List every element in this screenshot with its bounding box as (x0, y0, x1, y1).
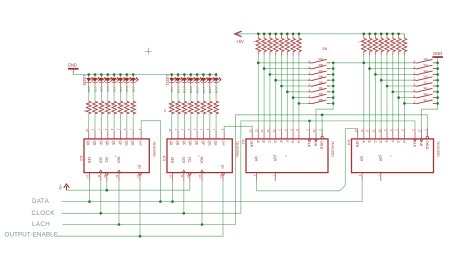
wire LED2 cathode (94, 86, 96, 102)
pin H (6) of IC1 (295, 129, 300, 144)
junction GND bus (436, 62, 439, 65)
svg-text:R8: R8 (131, 104, 133, 106)
svg-text:LACH: LACH (32, 221, 50, 228)
wire IC2 QH* to IC3 SER (141, 121, 160, 202)
junction +5V rail (274, 33, 277, 36)
svg-text:12: 12 (115, 175, 119, 178)
pin QH (7) of IC3 (212, 129, 217, 146)
junction LED bus (119, 73, 122, 76)
wire switch S2 to bus (330, 68, 333, 70)
junction LACH (118, 223, 121, 226)
switch S14 (413, 87, 436, 92)
wire switch S14 to GND bus (436, 91, 438, 93)
wire switch row 4 (bank1) (276, 79, 308, 81)
svg-text:11: 11 (180, 175, 184, 178)
pin SER (14) of IC2 (86, 157, 91, 181)
pin G (5) of IC1 (289, 129, 294, 144)
svg-text:5: 5 (289, 129, 293, 131)
wire switch S15 to GND bus (436, 97, 438, 99)
IC box IC1 74HC165N (246, 139, 328, 173)
wire switch row 3 (bank2) (375, 73, 413, 75)
wire switch row 5 (bank1) (282, 85, 309, 87)
junction LED bus (209, 73, 212, 76)
svg-text:QC: QC (99, 141, 103, 147)
svg-text:S15: S15 (424, 64, 429, 67)
wire R4 to IC2 QD (107, 114, 109, 130)
wire LED13 cathode (196, 86, 198, 102)
wire switch S1 to bus (330, 62, 333, 64)
resistor R14 (201, 101, 206, 114)
svg-text:R9: R9 (169, 104, 171, 106)
junction row6 tap RN2 (392, 91, 395, 94)
wire switch S4 to bus (330, 79, 333, 81)
svg-text:15: 15 (168, 129, 172, 132)
svg-text:19: 19 (268, 41, 270, 43)
junction bank1 bus (332, 85, 335, 88)
svg-text:9: 9 (137, 129, 141, 131)
resistor RN30 (390, 34, 395, 55)
pin QH̅ (7) of IC1 (271, 155, 276, 181)
resistor RN18 (262, 34, 267, 55)
wire RN20 to IC1 D (275, 55, 277, 129)
svg-text:7: 7 (212, 129, 216, 131)
pin SER (14) of IC3 (169, 157, 174, 181)
resistor RN19 (268, 34, 273, 55)
junction LED bus (170, 73, 173, 76)
pin SCL (10) of IC3 (186, 157, 191, 181)
pin H (6) of IC4 (401, 129, 406, 144)
wire R14 to IC3 QF (202, 114, 204, 130)
svg-text:R14: R14 (201, 104, 203, 107)
svg-text:QH*: QH* (139, 141, 143, 148)
svg-text:R3: R3 (99, 104, 101, 106)
pin E (3) of IC1 (278, 129, 283, 144)
svg-text:6: 6 (295, 129, 299, 131)
wire CLK net (CLOCK) (241, 121, 415, 213)
wire +5V pull-up rail (237, 33, 404, 35)
pin QC (2) of IC3 (181, 129, 186, 146)
wire RN29 to IC4 E (386, 55, 388, 129)
resistor R4 (105, 101, 110, 114)
wire IC3 SCK drop (183, 181, 185, 213)
wire R2 to IC2 QB (94, 114, 96, 130)
svg-text:2: 2 (181, 129, 185, 131)
wire LED11 cathode (183, 86, 185, 102)
junction +5V rail (368, 33, 371, 36)
svg-text:27: 27 (373, 41, 375, 43)
svg-text:QH: QH (273, 156, 277, 162)
svg-text:14: 14 (377, 129, 381, 132)
wire LED1 cathode (88, 86, 90, 102)
pin QH* (9) of IC2 (137, 129, 142, 147)
svg-text:SER: SER (87, 157, 91, 164)
svg-text:QE: QE (195, 141, 199, 147)
svg-text:12: 12 (198, 175, 202, 178)
svg-text:QG: QG (124, 141, 128, 147)
LED LED4 (106, 75, 113, 93)
svg-text:S8D: S8D (319, 76, 324, 79)
junction GND bus (436, 79, 439, 82)
svg-text:10: 10 (103, 175, 107, 178)
svg-text:F: F (390, 141, 394, 143)
junction CLOCK (100, 212, 103, 215)
resistor RN24 (297, 34, 302, 55)
junction LED bus (215, 73, 218, 76)
wire LED5 cathode (113, 86, 115, 102)
svg-text:13: 13 (372, 129, 376, 132)
svg-text:*: * (390, 154, 392, 159)
svg-text:R10: R10 (176, 104, 178, 107)
junction row4 tap RN1 (274, 79, 277, 82)
wire switch S3 to bus (330, 73, 333, 75)
svg-text:IC1: IC1 (241, 140, 245, 145)
junction row4 tap RN2 (380, 79, 383, 82)
svg-text:QH: QH (214, 141, 218, 147)
switch S16 (413, 99, 436, 104)
wire GND bus (437, 58, 439, 104)
svg-text:S8H: S8H (319, 99, 324, 102)
wire R16 to IC3 QH (215, 114, 217, 130)
resistor RN27 (373, 34, 378, 55)
svg-text:28: 28 (379, 41, 381, 43)
pin QG (6) of IC3 (206, 129, 211, 146)
svg-text:25: 25 (361, 41, 363, 43)
resistor RN29 (385, 34, 390, 55)
svg-text:16: 16 (163, 109, 167, 113)
svg-text:15: 15 (312, 129, 316, 132)
svg-text:13: 13 (266, 129, 270, 132)
resistor R11 (182, 101, 187, 114)
resistor R5 (112, 101, 117, 114)
resistor R8 (131, 101, 136, 114)
svg-text:QA: QA (86, 141, 90, 147)
resistor RN31 (396, 34, 401, 55)
junction bank1 bus (332, 67, 335, 70)
supply +5V (top) (235, 31, 244, 44)
switch S11 (413, 70, 436, 75)
svg-text:13: 13 (136, 175, 140, 178)
svg-text:R15: R15 (207, 104, 209, 107)
pin QH̅ (7) of IC4 (377, 155, 382, 181)
junction +5V rail (397, 33, 400, 36)
svg-text:7: 7 (129, 129, 133, 131)
svg-text:5: 5 (117, 129, 121, 131)
wire R15 to IC3 QG (209, 114, 211, 130)
junction row5 tap RN1 (280, 85, 283, 88)
LED LED2 (93, 75, 100, 93)
svg-text:4: 4 (389, 129, 393, 131)
wire RN19 to IC1 C (269, 55, 271, 129)
svg-text:S16: S16 (424, 58, 429, 61)
LED LED10 (176, 75, 183, 94)
junction +5V rail (374, 33, 377, 36)
pin C (13) of IC4 (372, 129, 377, 144)
junction +5V rail (386, 33, 389, 36)
junction DATA (88, 200, 91, 203)
svg-text:G: G (291, 141, 295, 144)
junction +5V rail (263, 33, 266, 36)
svg-text:SHLD: SHLD (320, 141, 324, 150)
wire LED3 cathode (100, 86, 102, 102)
pin QH* (9) of IC3 (220, 129, 225, 147)
junction GND bus (436, 96, 439, 99)
svg-text:2: 2 (411, 129, 415, 131)
wire R10 to IC3 QB (177, 114, 179, 130)
svg-text:13: 13 (219, 175, 223, 178)
svg-text:17: 17 (256, 41, 258, 43)
junction row7 tap RN2 (397, 96, 400, 99)
LED LED13 (195, 75, 202, 94)
svg-text:23: 23 (291, 41, 293, 43)
svg-text:74HC595N: 74HC595N (152, 141, 156, 157)
junction LED bus (100, 73, 103, 76)
svg-text:26: 26 (367, 41, 369, 43)
wire switch S7 to bus (330, 97, 333, 99)
svg-text:9: 9 (253, 175, 257, 177)
junction LED bus (196, 73, 199, 76)
svg-text:14: 14 (86, 175, 90, 178)
svg-text:R2: R2 (93, 104, 95, 106)
junction LED bus (132, 73, 135, 76)
pin INH (15) of IC4 (418, 129, 424, 147)
wire IC2 SCK drop (100, 181, 102, 213)
resistor RN25 (361, 34, 366, 55)
switch S10 (413, 64, 436, 69)
pin CLK (2) of IC1 (306, 129, 312, 148)
junction row1 tap RN2 (363, 62, 366, 65)
svg-text:QB: QB (176, 141, 180, 147)
wire SH/LD to IC1 (321, 115, 323, 136)
svg-text:S12: S12 (424, 81, 429, 84)
wire R7 to IC2 QG (126, 114, 128, 130)
LED LED16 (214, 75, 221, 94)
svg-text:R4: R4 (105, 104, 107, 106)
svg-text:D: D (379, 141, 383, 144)
supply +5V (bottom) (58, 184, 69, 191)
svg-text:4: 4 (110, 129, 114, 131)
svg-text:31: 31 (396, 41, 398, 43)
switch S12 (413, 76, 436, 81)
wire switch S12 to GND bus (436, 79, 438, 81)
wire switch row 3 (bank1) (270, 73, 308, 75)
svg-text:S8F: S8F (319, 87, 324, 90)
pin QE (4) of IC3 (193, 129, 198, 146)
svg-text:SER: SER (170, 157, 174, 164)
junction +5V rail (286, 33, 289, 36)
resistor RN26 (367, 34, 372, 55)
pin QA (15) of IC3 (168, 129, 173, 146)
wire switch row 5 (bank2) (387, 85, 413, 87)
svg-text:12: 12 (260, 129, 264, 132)
svg-text:7: 7 (377, 175, 381, 177)
wire CLOCK (62, 212, 241, 214)
junction LED bus (126, 73, 129, 76)
svg-text:QH: QH (360, 156, 364, 162)
pin SER (10) of IC4 (354, 129, 359, 148)
wire IC3 QH* to IC1 SER (224, 126, 252, 130)
svg-text:20: 20 (273, 41, 275, 43)
svg-text:74HC165N: 74HC165N (436, 141, 440, 157)
svg-text:QF: QF (201, 141, 205, 146)
wire RN25 to IC4 A (363, 55, 365, 129)
svg-text:R7: R7 (124, 104, 126, 106)
junction GND bus (436, 85, 439, 88)
junction bank1 bus (332, 73, 335, 76)
svg-text:SER: SER (355, 141, 359, 148)
svg-text:QF: QF (118, 141, 122, 146)
LED LED5 (112, 75, 119, 93)
svg-text:LED0: LED0 (82, 75, 87, 86)
svg-text:R16: R16 (214, 104, 216, 107)
svg-text:9: 9 (220, 129, 224, 131)
wire switch S10 to GND bus (436, 68, 438, 70)
wire R6 to IC2 QF (120, 114, 122, 130)
svg-text:GND: GND (433, 51, 442, 56)
pin D (14) of IC1 (272, 129, 277, 144)
svg-text:C: C (373, 141, 377, 144)
wire LED12 cathode (190, 86, 192, 102)
wire RN24 to IC1 H (298, 55, 300, 129)
svg-text:10: 10 (186, 175, 190, 178)
pin QE (4) of IC2 (110, 129, 115, 146)
junction GND bus (436, 91, 439, 94)
wire switch row 7 (bank1) (293, 97, 308, 99)
svg-text:QC: QC (182, 141, 186, 147)
junction CLK IC1 (308, 120, 311, 123)
svg-text:10: 10 (354, 129, 358, 132)
svg-text:32: 32 (402, 41, 404, 43)
svg-text:4: 4 (193, 129, 197, 131)
svg-text:E: E (279, 141, 283, 144)
wire IC3 RCK drop (201, 181, 203, 225)
pin QH (9) of IC4 (358, 156, 363, 181)
junction LED bus (183, 73, 186, 76)
pin SHLD (1) of IC1 (318, 129, 323, 150)
junction +5V rail (280, 33, 283, 36)
wire R1 to IC2 QA (88, 114, 90, 130)
svg-text:S8A: S8A (319, 58, 324, 61)
junction row8 tap RN1 (298, 102, 301, 105)
svg-text:1: 1 (423, 129, 427, 131)
svg-text:15: 15 (418, 129, 422, 132)
pin C (13) of IC1 (266, 129, 271, 144)
wire switch row 6 (bank2) (393, 91, 413, 93)
svg-text:SCL: SCL (187, 157, 191, 164)
pin SHLD (1) of IC4 (423, 129, 428, 150)
svg-text:3: 3 (278, 129, 282, 131)
op-amp-style box IC2 74HC595N (84, 139, 149, 173)
wire CLK to IC1 (309, 121, 311, 129)
pin G (5) of IC4 (395, 129, 400, 144)
resistor RN17 (256, 34, 261, 55)
LED LED9 (169, 75, 176, 93)
svg-text:R11: R11 (182, 104, 184, 107)
wire LED anode bus (73, 74, 216, 76)
svg-text:3: 3 (104, 129, 108, 131)
wire RN22 to IC1 F (286, 55, 288, 129)
wire IC1 QH to IC4 SER (257, 129, 358, 191)
pin QC (2) of IC2 (98, 129, 103, 146)
wire RN28 to IC4 D (380, 55, 382, 129)
junction +5V rail (292, 33, 295, 36)
wire switch row 8 (bank1) (299, 102, 308, 104)
wire switch row 1 (bank1) (258, 62, 308, 64)
wire bank1 bus to IC1 INH (316, 103, 333, 128)
junction LED bus (94, 73, 97, 76)
svg-text:S13: S13 (424, 76, 429, 79)
svg-text:QH*: QH* (222, 141, 226, 148)
wire R3 to IC2 QC (100, 114, 102, 130)
svg-text:RCK: RCK (117, 157, 121, 165)
svg-text:QH: QH (378, 156, 382, 162)
junction LACH (201, 223, 204, 226)
pin G (13) of IC2 (136, 165, 141, 181)
LED LED6 (118, 75, 125, 93)
switch S7 (308, 93, 330, 98)
svg-text:CLK: CLK (413, 141, 417, 148)
pin QB (1) of IC3 (174, 129, 179, 146)
svg-text:6: 6 (123, 129, 127, 131)
junction SH/LD IC1 (321, 114, 324, 117)
wire LED6 cathode (120, 86, 122, 102)
wire LED9 cathode (171, 86, 173, 102)
junction row8 tap RN2 (403, 102, 406, 105)
junction LED bus (177, 73, 180, 76)
LED LED15 (208, 75, 215, 94)
svg-text:14: 14 (272, 129, 276, 132)
svg-text:74HC165N: 74HC165N (331, 141, 335, 157)
resistor R12 (188, 101, 193, 114)
wire RN23 to IC1 G (292, 55, 294, 129)
svg-text:OUTPUT-ENABLE: OUTPUT-ENABLE (5, 232, 59, 239)
wire switch S6 to bus (330, 91, 333, 93)
svg-text:QG: QG (207, 141, 211, 147)
svg-text:IC3: IC3 (162, 156, 166, 161)
wire RN17 to IC1 A (257, 55, 259, 129)
svg-text:INH: INH (314, 141, 318, 147)
svg-text:18: 18 (262, 41, 264, 43)
wire R11 to IC3 QC (183, 114, 185, 130)
svg-text:H: H (296, 141, 300, 144)
svg-text:SHLD: SHLD (425, 141, 429, 150)
wire R8 to IC2 QH (132, 114, 134, 130)
svg-text:3: 3 (187, 129, 191, 131)
wire IC2 SCL drop (106, 181, 108, 190)
svg-text:11: 11 (360, 129, 364, 132)
svg-text:R6: R6 (118, 104, 120, 106)
junction row2 tap RN2 (368, 67, 371, 70)
switch S3 (308, 70, 330, 75)
LED LED3 (99, 75, 106, 93)
pin QG (6) of IC2 (123, 129, 128, 146)
svg-text:F: F (285, 141, 289, 143)
pin D (14) of IC4 (377, 129, 382, 144)
switch S13 (413, 81, 436, 86)
junction row3 tap RN2 (374, 73, 377, 76)
resistor R3 (99, 101, 104, 114)
svg-text:D: D (273, 141, 277, 144)
pin SER (10) of IC1 (248, 129, 253, 148)
pin QD (3) of IC3 (187, 129, 192, 146)
resistor RN32 (402, 34, 407, 55)
wire LED7 cathode (126, 86, 128, 102)
svg-text:C: C (267, 141, 271, 144)
pin INH (15) of IC1 (312, 129, 318, 147)
switch S15 (413, 93, 436, 98)
svg-text:QE: QE (112, 141, 116, 147)
svg-text:S8G: S8G (319, 93, 324, 96)
svg-text:SCK: SCK (98, 157, 102, 165)
